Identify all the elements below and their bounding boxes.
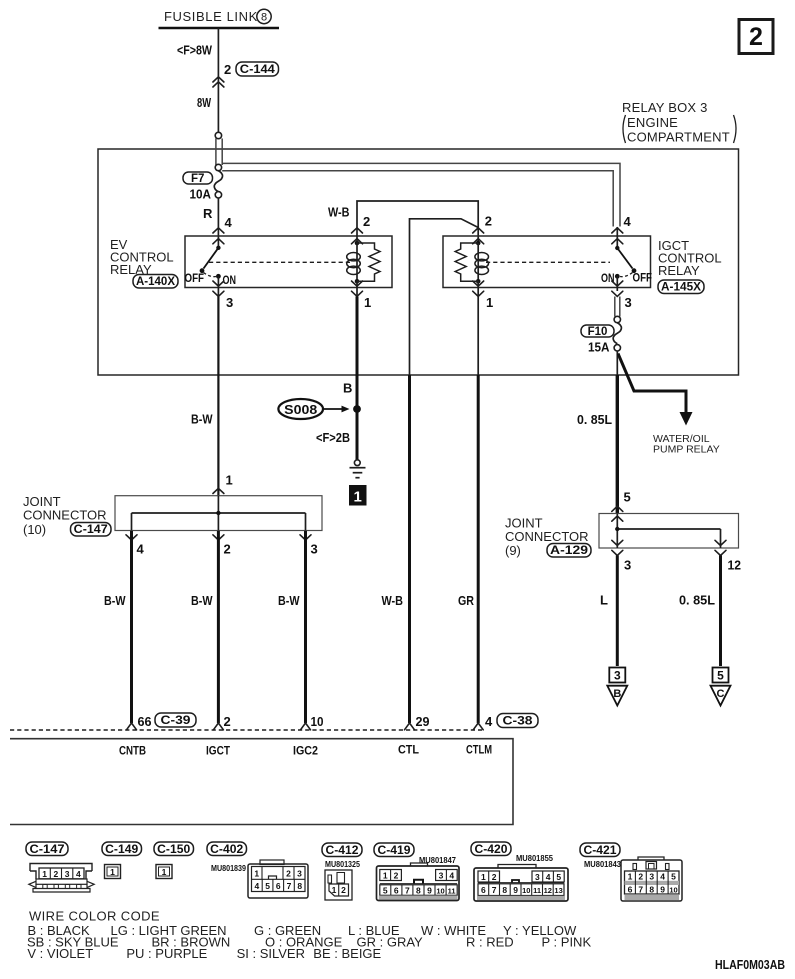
wire fork IGC2: [301, 723, 311, 730]
joint connector C-147 box: [115, 496, 322, 531]
svg-text:9: 9: [427, 885, 432, 895]
svg-text:MU801325: MU801325: [325, 859, 360, 869]
C-150 connector drawing: [156, 865, 172, 879]
svg-text:MU801839: MU801839: [211, 863, 246, 873]
C-420 gallery label: [471, 842, 511, 856]
C-147 internal bus: [132, 496, 306, 531]
EV relay switch: [185, 246, 237, 287]
A-140X label box: [133, 275, 178, 289]
svg-text:C-150: C-150: [157, 844, 190, 856]
svg-text:WIRE COLOR CODE: WIRE COLOR CODE: [29, 909, 160, 924]
fusible link bus bar: [159, 27, 280, 30]
C-149 connector drawing: [105, 865, 121, 879]
svg-text:ON: ON: [601, 271, 615, 285]
IGCT control relay box: [443, 236, 651, 288]
svg-text:4: 4: [225, 215, 233, 230]
svg-text:5: 5: [717, 669, 724, 683]
svg-text:2: 2: [749, 23, 763, 51]
EV relay armature dashed link: [209, 261, 350, 263]
svg-text:1: 1: [486, 295, 493, 310]
svg-text:1: 1: [354, 489, 362, 506]
svg-text:1: 1: [42, 869, 47, 879]
svg-text:5: 5: [383, 885, 388, 895]
svg-text:R : RED: R : RED: [466, 935, 514, 950]
svg-text:IGCT: IGCT: [206, 744, 231, 758]
svg-text:C-419: C-419: [378, 845, 411, 857]
svg-text:4: 4: [137, 542, 145, 557]
svg-text:MU801855: MU801855: [516, 853, 553, 863]
svg-text:A-140X: A-140X: [136, 276, 175, 288]
EV relay resistor: [357, 243, 380, 281]
svg-text:8: 8: [502, 885, 507, 895]
fuse F10: [581, 316, 621, 354]
svg-text:C-149: C-149: [105, 844, 138, 856]
svg-text:10: 10: [311, 714, 324, 729]
svg-text:1: 1: [226, 473, 233, 488]
svg-text:2: 2: [485, 214, 492, 229]
wire fork CTL: [405, 723, 415, 730]
svg-text:C-421: C-421: [584, 845, 618, 857]
svg-text:3: 3: [624, 558, 631, 573]
svg-text:2: 2: [492, 872, 497, 882]
svg-text:B-W: B-W: [104, 593, 126, 608]
svg-text:3: 3: [535, 872, 540, 882]
IGCT relay resistor: [455, 243, 478, 281]
EV relay coil: [347, 241, 361, 284]
svg-text:2: 2: [394, 870, 399, 880]
C-412 connector drawing: [325, 870, 352, 900]
svg-text:C: C: [717, 688, 725, 700]
EV control relay label: [110, 237, 174, 277]
relay box 3 outline: [98, 149, 739, 375]
svg-text:C-144: C-144: [240, 64, 276, 76]
ground id black box 1: [349, 485, 367, 506]
svg-text:C-147: C-147: [74, 524, 108, 536]
svg-text:1: 1: [110, 867, 115, 877]
C-147 pin 3: [300, 535, 311, 540]
svg-text:4: 4: [449, 870, 454, 880]
svg-text:1: 1: [383, 870, 388, 880]
wire R to EV relay pin 4: [217, 198, 219, 248]
svg-text:GR: GR: [458, 593, 475, 608]
svg-text:CNTB: CNTB: [119, 744, 146, 758]
svg-text:3: 3: [649, 872, 654, 882]
C-150 gallery label: [154, 842, 194, 856]
wire B-W pin2 to IGCT(bus): [217, 531, 220, 723]
wire fork CTLM: [473, 723, 483, 730]
svg-text:2: 2: [224, 714, 231, 729]
svg-text:7: 7: [287, 881, 292, 891]
A-129 label box: [547, 544, 591, 558]
C-147 gallery label: [26, 842, 68, 856]
wire fork CNTB: [127, 723, 137, 730]
wire L to terminal B: [616, 556, 619, 667]
svg-text:8: 8: [261, 12, 267, 24]
terminal 3-B: [607, 668, 627, 706]
svg-text:5: 5: [556, 872, 561, 882]
IGCT relay switch: [601, 246, 652, 285]
wire B-W pin3 to IGC2: [304, 531, 307, 723]
C-412 gallery label: [322, 843, 362, 857]
relay box 3 label: [622, 100, 736, 145]
branch to water/oil pump relay: [618, 354, 720, 456]
C-147 pin 2: [213, 535, 224, 540]
svg-text:BE : BEIGE: BE : BEIGE: [313, 946, 381, 961]
svg-text:10: 10: [669, 886, 677, 895]
fusible link label: [164, 9, 271, 24]
double line to fuse F10: [614, 297, 616, 317]
svg-text:2: 2: [224, 542, 231, 557]
connector C-144 chevrons: [213, 77, 224, 82]
EV relay pin 3: [217, 276, 219, 296]
svg-text:3: 3: [625, 295, 632, 310]
svg-text:1: 1: [628, 872, 633, 882]
svg-text:<F>8W: <F>8W: [177, 43, 213, 58]
svg-text:4: 4: [485, 714, 493, 729]
svg-text:0. 85L: 0. 85L: [679, 593, 715, 608]
svg-text:2: 2: [638, 872, 643, 882]
svg-text:10A: 10A: [190, 187, 212, 202]
svg-text:10: 10: [522, 886, 530, 895]
svg-text:HLAF0M03AB: HLAF0M03AB: [715, 957, 785, 972]
ground symbol: [350, 460, 366, 478]
svg-text:C-412: C-412: [326, 845, 359, 857]
joint connector label: [23, 494, 107, 537]
terminal 5-C: [711, 668, 731, 706]
svg-text:MU801843: MU801843: [584, 859, 621, 869]
svg-text:0. 85L: 0. 85L: [577, 412, 612, 427]
svg-text:OFF: OFF: [633, 271, 653, 285]
svg-text:5: 5: [265, 881, 270, 891]
EV relay pin 2: [352, 228, 363, 233]
A-145X label box: [658, 280, 704, 294]
svg-text:PU : PURPLE: PU : PURPLE: [126, 946, 207, 961]
svg-text:3: 3: [297, 869, 302, 879]
svg-text:5: 5: [671, 872, 676, 882]
wire color code: [27, 909, 591, 962]
svg-text:6: 6: [394, 885, 399, 895]
svg-text:2: 2: [286, 869, 291, 879]
C-147 pin 4: [126, 535, 137, 540]
svg-text:C-39: C-39: [161, 715, 191, 727]
svg-text:4: 4: [624, 214, 632, 229]
svg-text:B-W: B-W: [191, 593, 213, 608]
svg-text:F10: F10: [588, 326, 608, 338]
bottom dashed bus line: [10, 729, 482, 731]
svg-text:9: 9: [660, 885, 665, 895]
joint connector A-129 box: [599, 514, 739, 549]
C-419 gallery label: [374, 843, 414, 857]
svg-text:7: 7: [492, 885, 497, 895]
svg-text:13: 13: [554, 886, 562, 895]
svg-text:7: 7: [405, 885, 410, 895]
wire fork IGCT: [213, 723, 223, 730]
svg-text:B-W: B-W: [278, 593, 300, 608]
svg-text:CONNECTOR: CONNECTOR: [505, 529, 589, 544]
svg-text:12: 12: [728, 558, 742, 573]
svg-text:A-145X: A-145X: [661, 282, 701, 294]
wire B-W EV pin3 to C-147: [217, 297, 219, 496]
svg-text:R: R: [203, 206, 213, 221]
C-419 connector drawing: [377, 863, 460, 901]
svg-text:(10): (10): [23, 522, 46, 537]
svg-text:F7: F7: [191, 173, 204, 185]
svg-text:C-402: C-402: [210, 844, 243, 856]
C-421 connector drawing: [621, 857, 682, 901]
svg-text:4: 4: [255, 881, 260, 891]
svg-text:1: 1: [254, 869, 259, 879]
svg-text:11: 11: [533, 886, 541, 895]
svg-text:1: 1: [162, 867, 167, 877]
svg-text:CONNECTOR: CONNECTOR: [23, 508, 107, 523]
bottom unit box: [10, 739, 513, 825]
C-147 connector drawing: [29, 864, 94, 893]
A-129 pin 12: [715, 540, 726, 545]
svg-text:12: 12: [544, 886, 552, 895]
C-402 gallery label: [207, 842, 247, 856]
svg-text:<F>2B: <F>2B: [316, 430, 350, 445]
svg-text:3: 3: [65, 869, 70, 879]
IGCT relay coil: [475, 241, 489, 284]
svg-text:(9): (9): [505, 543, 521, 558]
svg-text:W-B: W-B: [382, 593, 404, 608]
IGCT control relay label: [658, 238, 722, 278]
wire B from EV pin1 to ground: [356, 281, 358, 296]
joint connector 9 label: [505, 516, 589, 559]
C-402 connector drawing: [248, 860, 308, 898]
wire B-W pin4 to CNTB: [130, 531, 133, 723]
svg-text:1: 1: [481, 872, 486, 882]
EV relay pin 1: [352, 281, 363, 286]
fuse holder double line: [215, 139, 217, 166]
svg-text:29: 29: [416, 714, 430, 729]
EV control relay box: [185, 236, 392, 288]
splice junction dot: [353, 405, 361, 413]
wire 0.85L from F10 to A-129: [616, 351, 618, 375]
wire 8W from fusible link: [217, 28, 219, 133]
IGCT pin 4: [612, 228, 623, 233]
svg-text:P : PINK: P : PINK: [542, 935, 592, 950]
svg-text:2: 2: [224, 62, 231, 77]
wire W-B from IGCT pin2 to bottom: [410, 219, 479, 375]
svg-text:2: 2: [341, 885, 346, 895]
fuse F7 holder terminal circle: [215, 132, 221, 138]
svg-text:B: B: [613, 688, 621, 700]
svg-text:4: 4: [660, 872, 665, 882]
svg-text:3: 3: [614, 669, 621, 683]
svg-text:3: 3: [439, 870, 444, 880]
svg-text:FUSIBLE LINK: FUSIBLE LINK: [164, 9, 258, 24]
svg-text:6: 6: [628, 885, 633, 895]
svg-text:C-147: C-147: [30, 844, 65, 856]
svg-text:8: 8: [416, 885, 421, 895]
svg-text:6: 6: [276, 881, 281, 891]
wire W-B EV pin2 to IGCT pin2: [357, 201, 478, 243]
svg-text:10: 10: [436, 886, 444, 895]
C-421 gallery label: [580, 843, 620, 857]
IGCT pin 2: [473, 228, 484, 233]
svg-text:B: B: [343, 381, 352, 396]
svg-text:6: 6: [481, 885, 486, 895]
svg-text:8: 8: [297, 881, 302, 891]
splice S008: [278, 399, 349, 419]
svg-text:3: 3: [226, 295, 233, 310]
svg-text:3: 3: [311, 542, 318, 557]
svg-text:RELAY BOX 3: RELAY BOX 3: [622, 100, 708, 115]
svg-text:8: 8: [649, 885, 654, 895]
IGCT pin 1: [473, 281, 484, 286]
svg-text:RELAY: RELAY: [658, 263, 700, 278]
fuse F7: [183, 164, 223, 201]
svg-text:ENGINE: ENGINE: [627, 115, 678, 130]
svg-text:4: 4: [76, 869, 81, 879]
IGCT pin 3: [616, 276, 618, 291]
svg-text:V : VIOLET: V : VIOLET: [27, 946, 93, 961]
svg-text:IGC2: IGC2: [293, 744, 318, 758]
IGCT relay armature dashed link: [486, 261, 610, 263]
svg-text:1: 1: [332, 885, 337, 895]
svg-text:CTL: CTL: [398, 743, 419, 757]
svg-text:W-B: W-B: [328, 205, 350, 220]
svg-text:2: 2: [363, 214, 370, 229]
sheet number 2 box: [739, 20, 773, 54]
A-129 pin 3: [612, 540, 623, 545]
svg-text:OFF: OFF: [185, 271, 205, 285]
wire GR from IGCT pin1 to bottom: [477, 281, 479, 375]
C-420 connector drawing: [474, 865, 568, 902]
svg-text:15A: 15A: [588, 340, 610, 355]
svg-text:1: 1: [364, 295, 371, 310]
svg-text:2: 2: [54, 869, 59, 879]
svg-text:7: 7: [638, 885, 643, 895]
svg-text:L: L: [600, 593, 608, 608]
svg-text:C-420: C-420: [475, 844, 508, 856]
bus double line to IGCT pin 4: [222, 163, 620, 226]
svg-text:4: 4: [546, 872, 551, 882]
svg-text:SI : SILVER: SI : SILVER: [237, 946, 305, 961]
svg-text:CTLM: CTLM: [466, 743, 492, 757]
svg-text:B-W: B-W: [191, 412, 213, 427]
C-149 gallery label: [102, 842, 142, 856]
svg-text:8W: 8W: [197, 95, 212, 110]
svg-text:A-129: A-129: [550, 545, 588, 557]
C-147 label box: [71, 523, 112, 537]
svg-text:PUMP RELAY: PUMP RELAY: [653, 444, 720, 456]
svg-text:C-38: C-38: [503, 716, 534, 728]
svg-text:5: 5: [624, 490, 631, 505]
svg-text:COMPARTMENT: COMPARTMENT: [627, 130, 730, 145]
svg-text:11: 11: [448, 886, 456, 895]
wire 0.85L to terminal C: [719, 556, 722, 667]
A-129 internal bus: [615, 514, 720, 549]
svg-text:S008: S008: [284, 402, 317, 417]
svg-text:9: 9: [513, 885, 518, 895]
svg-text:ON: ON: [223, 273, 237, 287]
svg-text:66: 66: [138, 714, 152, 729]
